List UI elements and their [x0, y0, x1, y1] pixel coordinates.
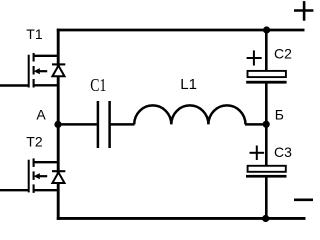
node A junction dot — [54, 121, 61, 128]
plus polarity of C3 — [250, 146, 265, 161]
wire C1 to L1 — [111, 123, 135, 126]
wire node A to C1 — [58, 123, 97, 126]
capacitor C1 — [98, 101, 110, 148]
transistor T1 — [0, 53, 58, 88]
minus terminal bottom right — [294, 199, 313, 202]
wire top rail — [57, 29, 305, 32]
node B junction dot — [263, 121, 270, 128]
svg-text:T1: T1 — [26, 26, 43, 42]
wire right branch middle (C2 to C3 through node B) — [265, 83, 268, 166]
plus polarity of C2 — [247, 50, 262, 65]
svg-text:Б: Б — [275, 106, 284, 122]
wire right branch upper (rail to C2) — [265, 29, 268, 72]
svg-text:C2: C2 — [274, 45, 292, 61]
wire right branch lower (C3 to bottom rail) — [265, 177, 268, 219]
top right junction dot — [263, 26, 270, 33]
capacitor C3 — [246, 166, 287, 178]
capacitor C2 — [246, 71, 286, 84]
plus terminal top right — [294, 1, 313, 21]
svg-text:A: A — [36, 106, 46, 122]
wire L1 to node B — [245, 123, 266, 126]
diode of T1 (body diode) — [52, 64, 65, 76]
svg-text:C3: C3 — [274, 144, 292, 160]
wire left vertical (T1 drain to T2 source chain) — [57, 29, 60, 220]
svg-text:C1: C1 — [90, 75, 106, 95]
bottom right junction dot — [262, 215, 269, 222]
svg-text:L1: L1 — [180, 76, 197, 93]
inductor L1 — [134, 105, 245, 124]
wire bottom rail — [57, 217, 306, 220]
transistor T2 — [0, 158, 58, 193]
svg-text:T2: T2 — [26, 134, 43, 150]
diode of T2 (body diode) — [52, 171, 65, 183]
